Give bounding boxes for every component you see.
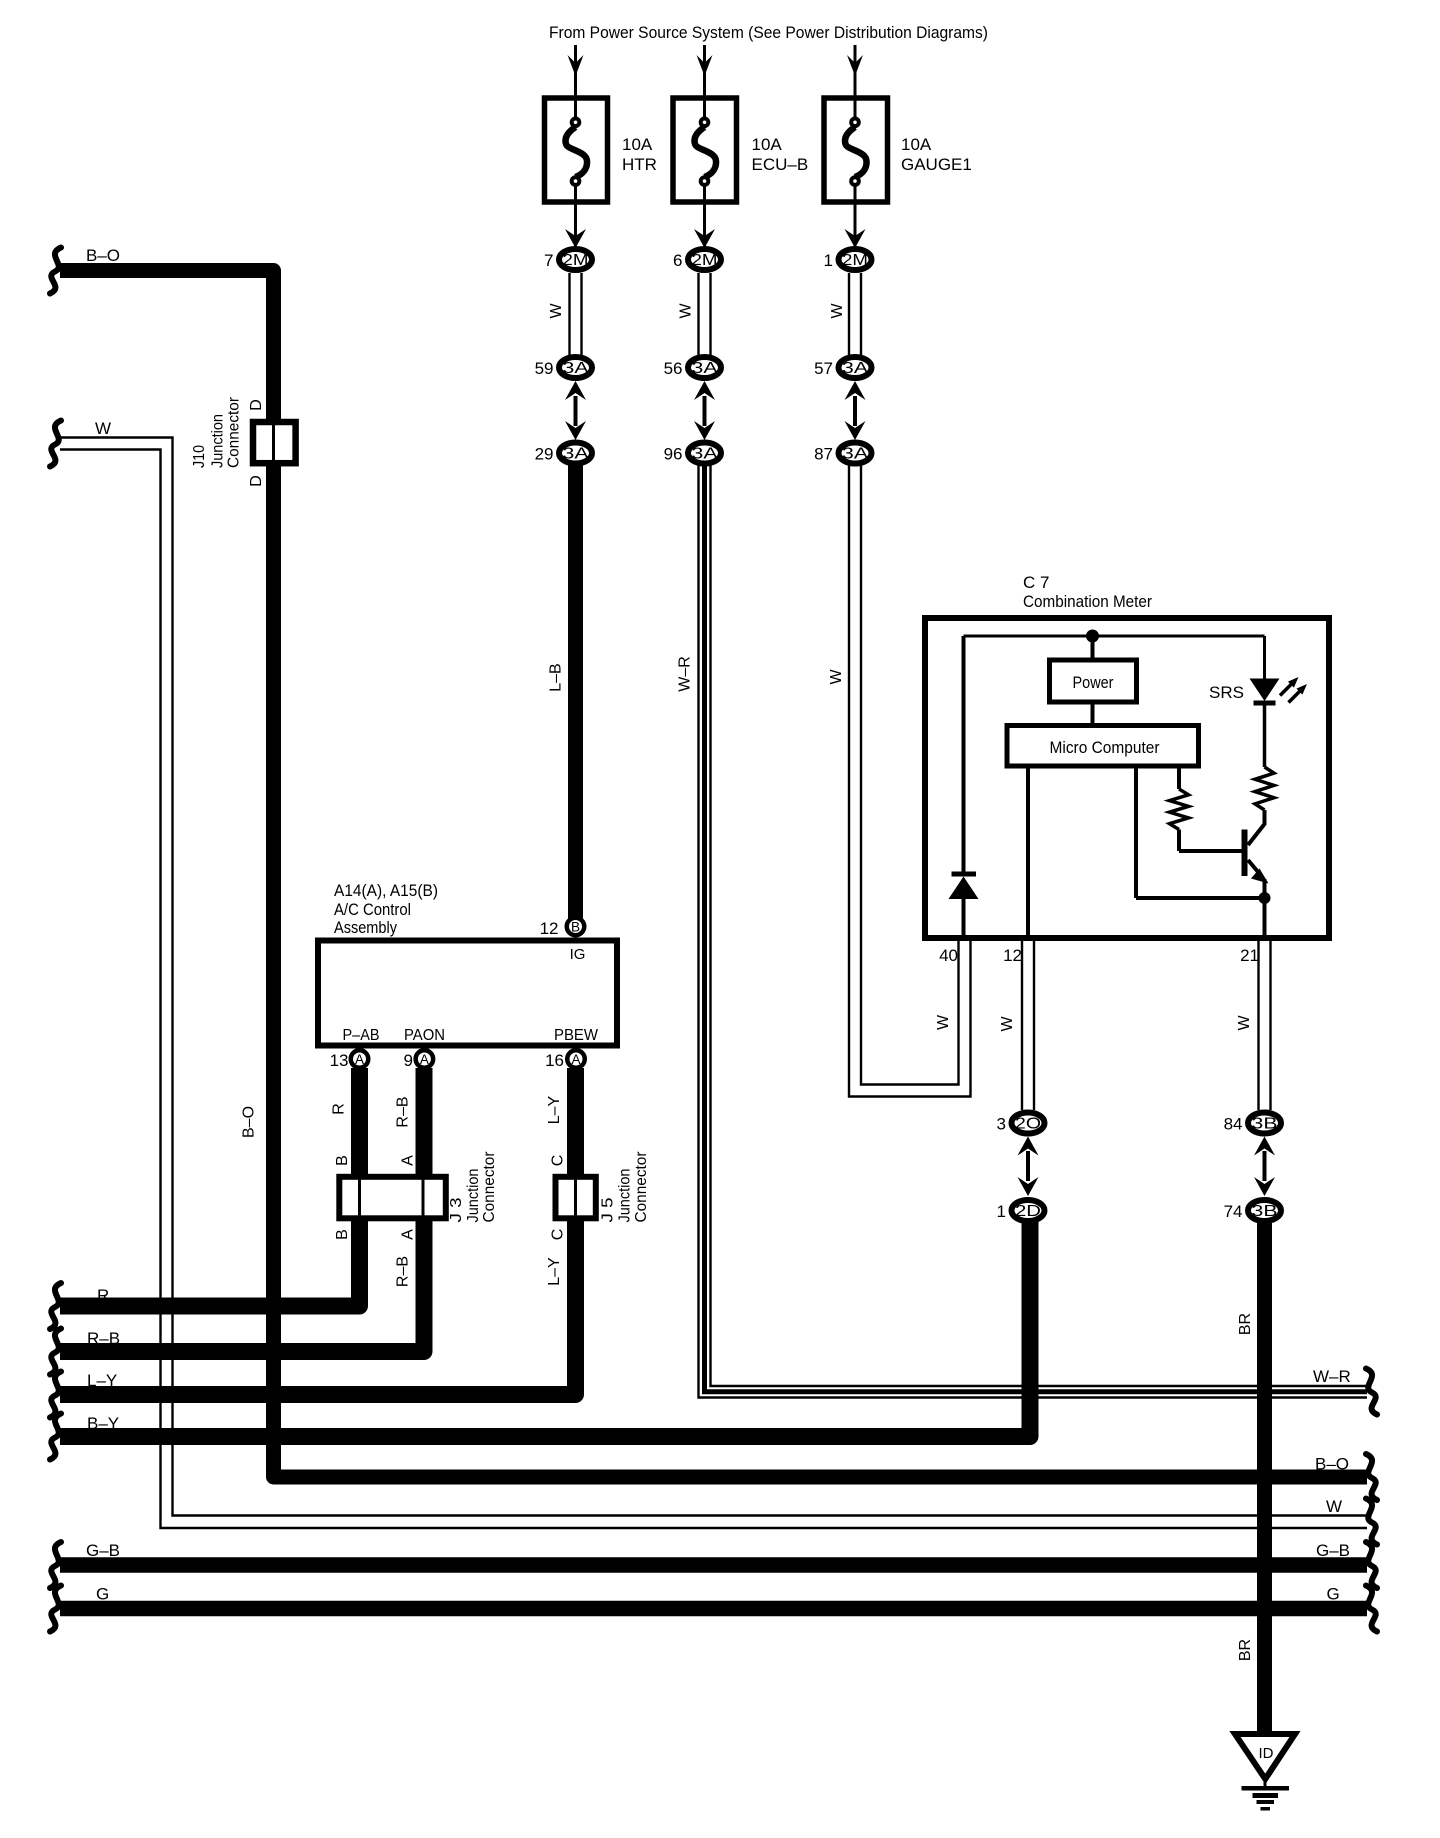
svg-text:D: D [248, 475, 265, 487]
svg-text:R–B: R–B [395, 1256, 412, 1287]
svg-text:HTR: HTR [622, 155, 657, 174]
svg-text:2M: 2M [563, 252, 589, 269]
svg-text:W–R: W–R [677, 656, 694, 692]
svg-text:59: 59 [535, 359, 554, 378]
svg-text:L–Y: L–Y [546, 1257, 563, 1286]
svg-text:1: 1 [997, 1202, 1006, 1221]
svg-text:3B: 3B [1252, 1203, 1278, 1220]
svg-text:W: W [935, 1014, 952, 1030]
svg-text:Junction: Junction [617, 1169, 634, 1223]
svg-text:84: 84 [1224, 1115, 1243, 1134]
svg-text:W: W [1326, 1497, 1342, 1516]
svg-text:A: A [420, 1052, 429, 1067]
svg-text:W–R: W–R [1313, 1367, 1351, 1386]
svg-text:2O: 2O [1015, 1116, 1041, 1133]
svg-text:9: 9 [404, 1051, 413, 1070]
svg-text:Connector: Connector [481, 1151, 498, 1223]
svg-text:IG: IG [570, 946, 586, 963]
svg-text:L–Y: L–Y [87, 1371, 117, 1390]
svg-text:29: 29 [535, 445, 554, 464]
svg-text:P–AB: P–AB [343, 1027, 380, 1044]
svg-text:10A: 10A [752, 135, 783, 154]
svg-text:A: A [400, 1155, 417, 1166]
svg-text:BR: BR [1237, 1639, 1254, 1661]
svg-text:3B: 3B [1252, 1116, 1278, 1133]
svg-text:GAUGE1: GAUGE1 [901, 155, 972, 174]
svg-text:J10: J10 [191, 445, 208, 468]
svg-text:13: 13 [330, 1051, 349, 1070]
svg-text:6: 6 [673, 251, 682, 270]
svg-text:D: D [248, 399, 265, 411]
svg-text:A: A [400, 1229, 417, 1240]
svg-text:3A: 3A [692, 446, 719, 463]
svg-text:12: 12 [1003, 946, 1022, 965]
svg-text:Combination Meter: Combination Meter [1023, 592, 1152, 611]
svg-text:B–O: B–O [241, 1106, 258, 1138]
svg-text:A: A [571, 1052, 580, 1067]
svg-text:10A: 10A [901, 135, 932, 154]
svg-text:3A: 3A [563, 360, 590, 377]
svg-text:W: W [999, 1016, 1016, 1032]
svg-text:BR: BR [1237, 1313, 1254, 1335]
svg-text:2M: 2M [842, 252, 868, 269]
svg-text:57: 57 [814, 359, 833, 378]
svg-text:10A: 10A [622, 135, 653, 154]
svg-text:W: W [678, 303, 695, 319]
svg-text:C 7: C 7 [1023, 573, 1049, 592]
svg-text:G: G [96, 1585, 109, 1604]
svg-text:PAON: PAON [404, 1027, 445, 1044]
svg-text:3A: 3A [842, 446, 869, 463]
svg-text:L–B: L–B [548, 663, 565, 691]
svg-text:3A: 3A [563, 446, 590, 463]
svg-text:W: W [829, 303, 846, 319]
svg-text:40: 40 [939, 946, 958, 965]
svg-text:2D: 2D [1015, 1203, 1041, 1220]
svg-text:2M: 2M [692, 252, 718, 269]
svg-text:W: W [548, 303, 565, 319]
svg-text:R–B: R–B [87, 1329, 120, 1348]
svg-text:3A: 3A [842, 360, 869, 377]
svg-text:J 5: J 5 [600, 1197, 617, 1222]
svg-text:Connector: Connector [633, 1151, 650, 1223]
svg-text:G–B: G–B [86, 1541, 120, 1560]
svg-text:3A: 3A [692, 360, 719, 377]
svg-text:C: C [550, 1229, 567, 1241]
svg-text:B–O: B–O [1315, 1455, 1349, 1474]
svg-text:Assembly: Assembly [334, 918, 397, 937]
svg-text:3: 3 [997, 1115, 1006, 1134]
svg-text:G–B: G–B [1316, 1541, 1350, 1560]
svg-text:1: 1 [824, 251, 833, 270]
svg-text:7: 7 [544, 251, 553, 270]
svg-text:12: 12 [540, 919, 559, 938]
svg-text:Connector: Connector [226, 396, 243, 468]
svg-text:R–B: R–B [395, 1096, 412, 1127]
svg-text:Micro Computer: Micro Computer [1050, 738, 1160, 757]
svg-text:B: B [334, 1155, 351, 1166]
svg-text:W: W [1236, 1015, 1253, 1031]
svg-text:Junction: Junction [465, 1169, 482, 1223]
svg-text:A: A [355, 1052, 364, 1067]
svg-text:B–Y: B–Y [87, 1414, 119, 1433]
svg-text:L–Y: L–Y [546, 1095, 563, 1124]
svg-text:87: 87 [814, 445, 833, 464]
svg-text:ID: ID [1259, 1745, 1274, 1762]
svg-text:A/C Control: A/C Control [334, 900, 411, 919]
svg-text:16: 16 [545, 1051, 564, 1070]
svg-text:R: R [97, 1286, 109, 1305]
svg-text:B: B [334, 1229, 351, 1240]
svg-text:B: B [571, 919, 580, 934]
svg-text:From Power Source System (See: From Power Source System (See Power Dist… [549, 23, 988, 42]
svg-text:W: W [95, 419, 111, 438]
svg-text:ECU–B: ECU–B [752, 155, 809, 174]
svg-text:Power: Power [1073, 673, 1114, 692]
svg-text:J 3: J 3 [448, 1197, 465, 1222]
svg-text:G: G [1327, 1585, 1340, 1604]
svg-text:96: 96 [664, 445, 683, 464]
svg-text:PBEW: PBEW [554, 1027, 599, 1044]
svg-text:B–O: B–O [86, 246, 120, 265]
svg-text:A14(A), A15(B): A14(A), A15(B) [334, 881, 438, 900]
svg-text:21: 21 [1240, 946, 1259, 965]
svg-text:56: 56 [664, 359, 683, 378]
svg-text:74: 74 [1224, 1202, 1243, 1221]
svg-text:C: C [550, 1155, 567, 1167]
svg-text:R: R [331, 1103, 348, 1115]
svg-text:SRS: SRS [1209, 683, 1244, 702]
svg-text:W: W [828, 669, 845, 685]
svg-text:Junction: Junction [210, 414, 227, 468]
